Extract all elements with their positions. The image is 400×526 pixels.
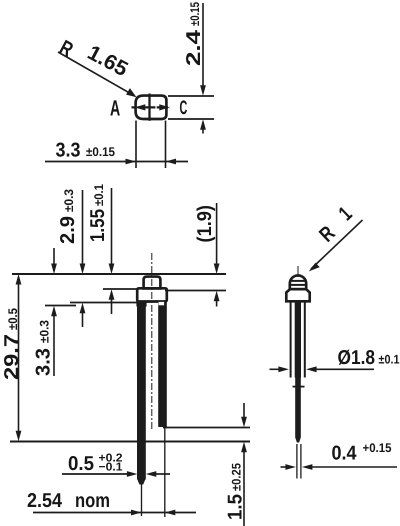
- svg-text:−0.1: −0.1: [99, 462, 124, 474]
- svg-text:R: R: [56, 36, 77, 62]
- svg-text:0.5: 0.5: [68, 453, 94, 475]
- svg-text:±0.3: ±0.3: [38, 320, 52, 343]
- svg-text:2.54: 2.54: [27, 490, 63, 512]
- svg-text:2.9: 2.9: [57, 216, 79, 244]
- svg-text:3.3: 3.3: [56, 140, 81, 162]
- svg-text:±0.3: ±0.3: [62, 189, 76, 212]
- svg-text:0.4: 0.4: [332, 443, 358, 465]
- svg-text:C: C: [180, 97, 188, 119]
- svg-text:29.7: 29.7: [1, 334, 23, 380]
- svg-text:1.55: 1.55: [87, 209, 109, 242]
- svg-text:±0.15: ±0.15: [188, 2, 202, 26]
- svg-text:1: 1: [335, 202, 357, 225]
- svg-text:2.4: 2.4: [183, 29, 205, 66]
- svg-text:A: A: [110, 95, 120, 120]
- svg-text:±0.1: ±0.1: [379, 353, 400, 367]
- svg-text:±0.5: ±0.5: [6, 308, 20, 330]
- svg-text:R: R: [315, 222, 340, 247]
- svg-text:1.5: 1.5: [225, 494, 247, 520]
- svg-text:±0.25: ±0.25: [230, 463, 244, 491]
- svg-text:Ø1.8: Ø1.8: [338, 347, 376, 369]
- svg-text:1.65: 1.65: [84, 41, 132, 81]
- svg-text:±0.1: ±0.1: [92, 184, 106, 206]
- svg-text:3.3: 3.3: [33, 348, 55, 376]
- svg-text:±0.15: ±0.15: [86, 145, 115, 159]
- svg-text:(1.9): (1.9): [194, 205, 216, 243]
- svg-text:+0.15: +0.15: [363, 441, 392, 455]
- svg-text:nom: nom: [75, 490, 110, 512]
